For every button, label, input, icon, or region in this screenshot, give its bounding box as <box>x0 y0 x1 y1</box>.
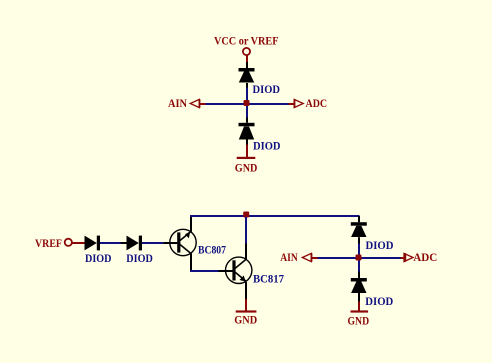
svg-text:DIOD: DIOD <box>85 253 112 265</box>
svg-text:AIN: AIN <box>280 252 298 264</box>
svg-text:GND: GND <box>348 316 370 328</box>
svg-text:DIOD: DIOD <box>253 141 281 153</box>
svg-text:BC817: BC817 <box>253 274 284 286</box>
svg-text:GND: GND <box>234 315 257 327</box>
svg-text:AIN: AIN <box>168 98 188 110</box>
svg-text:DIOD: DIOD <box>126 253 153 265</box>
svg-text:BC807: BC807 <box>198 245 226 257</box>
svg-text:VREF: VREF <box>35 238 62 250</box>
svg-text:ADC: ADC <box>306 98 328 110</box>
svg-text:ADC: ADC <box>413 252 437 264</box>
svg-text:DIOD: DIOD <box>365 296 393 308</box>
svg-text:DIOD: DIOD <box>253 84 281 96</box>
svg-text:DIOD: DIOD <box>366 240 394 252</box>
svg-text:VCC or VREF: VCC or VREF <box>214 36 279 48</box>
svg-text:GND: GND <box>235 163 258 175</box>
